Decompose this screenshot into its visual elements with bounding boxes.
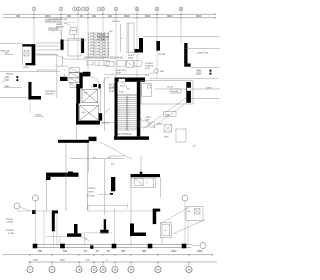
svg-text:1F: 1F: [129, 268, 132, 272]
svg-text:XXXXX X50: XXXXX X50: [197, 53, 209, 55]
svg-text:XDE30: XDE30: [6, 74, 14, 76]
svg-text:1800: 1800: [197, 250, 203, 253]
svg-text:300: 300: [67, 15, 72, 18]
svg-text:1B: 1B: [77, 268, 80, 272]
svg-text:(6)30: (6)30: [196, 74, 202, 76]
svg-text:XX 150: XX 150: [158, 54, 166, 56]
svg-text:1A: 1A: [50, 268, 53, 272]
svg-text:6.YFB1-XX(C) 40-18: 6.YFB1-XX(C) 40-18: [88, 49, 110, 51]
svg-text:XXX: XXX: [164, 137, 169, 139]
svg-text:X19X: X19X: [120, 86, 126, 88]
svg-text:3000: 3000: [167, 15, 173, 18]
svg-text:XXKXB: XXKXB: [56, 26, 64, 28]
svg-text:748 X: 748 X: [88, 191, 94, 193]
svg-text:( )30: ( )30: [4, 80, 9, 82]
svg-text:1-XX(X): 1-XX(X): [97, 40, 105, 42]
svg-text:X.BXMNFBDKWBXMFB-XX(C) 40-18: X.BXMNFBDKWBXMFB-XX(C) 40-18: [84, 58, 123, 60]
svg-text:300: 300: [92, 15, 97, 18]
svg-text:+XXXX: +XXXX: [6, 222, 14, 224]
svg-text:8.YFB1-XX(C) 40-18: 8.YFB1-XX(C) 40-18: [88, 54, 110, 56]
svg-text:900: 900: [142, 250, 147, 253]
svg-text:XX XX: XX XX: [167, 87, 174, 89]
svg-text:300: 300: [108, 15, 113, 18]
svg-text:3000: 3000: [45, 15, 51, 18]
svg-text:XXK: XXK: [145, 75, 150, 77]
svg-text:1800: 1800: [171, 250, 177, 253]
svg-text:Lw-243: Lw-243: [171, 91, 179, 93]
svg-text:2000: 2000: [5, 86, 11, 88]
svg-text:1C: 1C: [92, 268, 95, 272]
svg-text:X XX: X XX: [119, 92, 124, 94]
svg-text:X150X: X150X: [116, 73, 123, 75]
svg-text:3000: 3000: [145, 15, 151, 18]
svg-text:m: m: [106, 260, 108, 262]
svg-text:XXTF: XXTF: [23, 67, 29, 69]
svg-text:3000: 3000: [33, 259, 39, 261]
svg-text:3000: 3000: [60, 259, 66, 261]
svg-text:1G: 1G: [156, 268, 159, 272]
svg-text:( )40: ( )40: [4, 77, 9, 79]
svg-text:XXFX: XXFX: [115, 138, 121, 140]
svg-text:5.YFB1-XX(C) 40-18: 5.YFB1-XX(C) 40-18: [88, 46, 110, 48]
svg-text:XK40: XK40: [128, 58, 134, 60]
svg-text:XX/XXX: XX/XXX: [6, 230, 14, 232]
svg-text:1E: 1E: [113, 268, 116, 272]
svg-text:XXXXX: XXXXX: [88, 188, 96, 190]
svg-text:8+7 X=XX+X: 8+7 X=XX+X: [118, 133, 132, 136]
svg-text:1060: 1060: [165, 114, 171, 116]
svg-text:3000: 3000: [196, 15, 202, 18]
svg-text:XBXXKX: XBXXKX: [45, 94, 54, 96]
svg-text:7.YFB1-XX(C) 40-18: 7.YFB1-XX(C) 40-18: [88, 52, 110, 54]
svg-text:1D: 1D: [101, 268, 104, 272]
svg-text:XXXX: XXXX: [206, 87, 212, 89]
svg-text:500: 500: [38, 250, 43, 253]
svg-text:1#XX: 1#XX: [145, 68, 151, 70]
svg-text:3000: 3000: [124, 15, 130, 18]
svg-text:48 X: 48 X: [91, 196, 96, 198]
svg-text:500: 500: [63, 250, 68, 253]
svg-text:300: 300: [16, 15, 21, 18]
svg-text:4.YFB1-XX(C) 40-18: 4.YFB1-XX(C) 40-18: [88, 43, 110, 45]
svg-text:xx: xx: [85, 239, 87, 241]
svg-text:m: m: [165, 230, 167, 232]
svg-text:4X60: 4X60: [157, 124, 163, 126]
svg-text:(7)40: (7)40: [196, 71, 202, 73]
svg-text:1H: 1H: [187, 268, 190, 272]
svg-text:XXX XX: XXX XX: [112, 21, 120, 23]
svg-text:XXXXX: XXXXX: [102, 123, 109, 125]
svg-text:4 X30: 4 X30: [8, 233, 14, 235]
svg-text:780: 780: [121, 250, 126, 253]
